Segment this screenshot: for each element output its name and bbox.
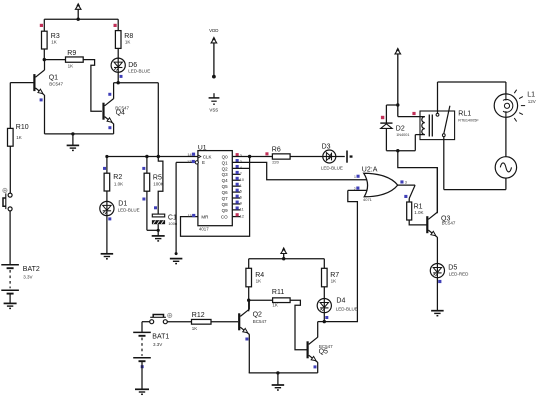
svg-text:BAT2: BAT2 — [23, 266, 40, 273]
svg-text:Q2: Q2 — [222, 166, 229, 171]
svg-text:RL1: RL1 — [458, 110, 471, 117]
svg-text:4071: 4071 — [363, 197, 373, 202]
svg-text:Q5: Q5 — [222, 184, 229, 189]
svg-text:Q2: Q2 — [253, 312, 262, 319]
svg-text:U1: U1 — [198, 144, 207, 151]
svg-text:Q1: Q1 — [222, 160, 229, 165]
svg-text:MR: MR — [201, 215, 209, 220]
svg-text:D2: D2 — [396, 125, 405, 132]
svg-text:LED-BLUE: LED-BLUE — [118, 207, 140, 212]
svg-text:Q7: Q7 — [222, 196, 229, 201]
svg-text:R12: R12 — [192, 312, 205, 319]
svg-text:Q5: Q5 — [319, 349, 328, 356]
svg-text:100K: 100K — [153, 182, 164, 187]
svg-text:12: 12 — [240, 214, 244, 218]
svg-text:R11: R11 — [272, 289, 284, 296]
svg-text:9: 9 — [240, 202, 242, 206]
svg-text:D4: D4 — [336, 298, 345, 305]
svg-text:1K: 1K — [272, 302, 278, 307]
svg-text:LED-BLUE: LED-BLUE — [321, 166, 343, 171]
svg-text:R10: R10 — [16, 124, 29, 131]
svg-text:6: 6 — [240, 196, 242, 200]
svg-text:BAT1: BAT1 — [152, 333, 169, 340]
svg-text:Q4: Q4 — [222, 178, 229, 183]
svg-text:1: 1 — [240, 184, 242, 188]
svg-text:R2: R2 — [113, 174, 122, 181]
svg-text:U2:A: U2:A — [362, 166, 378, 173]
svg-text:Q6: Q6 — [222, 190, 229, 195]
svg-text:VSS: VSS — [209, 108, 218, 113]
svg-text:LED-BLUE: LED-BLUE — [336, 306, 358, 311]
svg-text:Q1: Q1 — [49, 74, 58, 81]
svg-text:R6: R6 — [272, 146, 281, 153]
svg-text:1.0K: 1.0K — [414, 210, 423, 215]
svg-text:10: 10 — [240, 178, 244, 182]
svg-text:Q8: Q8 — [222, 202, 229, 207]
svg-text:1: 1 — [354, 175, 356, 179]
svg-text:VDD: VDD — [209, 28, 218, 33]
svg-text:R9: R9 — [67, 50, 76, 57]
svg-text:220: 220 — [272, 159, 279, 164]
svg-text:3.3V: 3.3V — [153, 342, 162, 347]
svg-text:4017: 4017 — [199, 226, 209, 231]
svg-text:BC547: BC547 — [442, 221, 456, 226]
svg-text:BC547: BC547 — [49, 82, 63, 87]
svg-text:BC547: BC547 — [253, 319, 267, 324]
svg-text:Q4: Q4 — [116, 110, 125, 117]
svg-text:1K: 1K — [125, 40, 131, 45]
svg-text:11: 11 — [240, 207, 244, 211]
svg-text:7: 7 — [240, 172, 242, 176]
svg-text:2: 2 — [354, 187, 356, 191]
svg-text:CO: CO — [221, 215, 228, 220]
svg-text:1K: 1K — [192, 326, 198, 331]
svg-text:Q9: Q9 — [222, 208, 229, 213]
svg-text:D5: D5 — [448, 264, 457, 271]
svg-text:CLK: CLK — [203, 154, 212, 159]
svg-text:13: 13 — [187, 160, 191, 164]
svg-text:E: E — [202, 160, 205, 165]
svg-text:15: 15 — [188, 214, 192, 218]
svg-text:Q0: Q0 — [222, 154, 229, 159]
svg-text:D3: D3 — [322, 143, 331, 150]
svg-text:3.3V: 3.3V — [23, 274, 32, 279]
svg-text:3: 3 — [405, 181, 407, 185]
svg-text:RTB14005F: RTB14005F — [458, 119, 479, 123]
svg-text:1N4001: 1N4001 — [396, 133, 409, 137]
svg-text:1K: 1K — [256, 279, 262, 284]
svg-text:1K: 1K — [68, 64, 74, 69]
svg-text:1K: 1K — [16, 135, 22, 140]
svg-text:1K: 1K — [51, 40, 57, 45]
svg-text:14: 14 — [187, 153, 191, 157]
svg-text:1.0K: 1.0K — [114, 181, 123, 186]
svg-text:L1: L1 — [527, 91, 535, 98]
svg-text:Q3: Q3 — [222, 172, 229, 177]
svg-text:R5: R5 — [153, 175, 162, 182]
svg-text:12V: 12V — [528, 99, 536, 104]
svg-text:5: 5 — [240, 190, 242, 194]
svg-text:LED-BLUE: LED-BLUE — [128, 68, 150, 73]
svg-text:1K: 1K — [331, 279, 337, 284]
svg-text:LED-RED: LED-RED — [449, 272, 470, 277]
